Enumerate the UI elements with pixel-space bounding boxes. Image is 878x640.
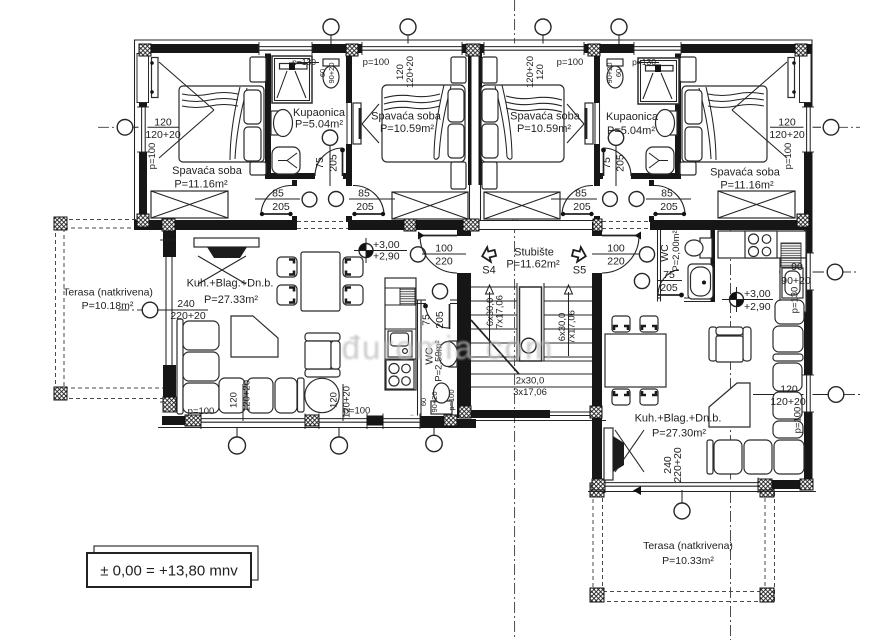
svg-text:2x30,0: 2x30,0 [516,376,545,387]
svg-text:S4: S4 [482,265,495,277]
svg-text:120: 120 [154,117,172,129]
svg-text:205: 205 [615,154,627,172]
svg-text:S5: S5 [573,265,586,277]
svg-text:120: 120 [329,392,340,408]
svg-text:220+20: 220+20 [672,447,684,482]
svg-text:đuromia com: đuromia com [342,329,555,366]
svg-text:+2,90: +2,90 [744,301,771,313]
svg-text:90+20: 90+20 [430,391,439,412]
svg-text:120+20: 120+20 [769,129,804,141]
svg-text:Spavaća soba: Spavaća soba [710,167,781,179]
svg-text:90+20: 90+20 [327,62,336,83]
svg-text:120+20: 120+20 [525,56,536,88]
svg-text:75: 75 [421,314,433,326]
svg-text:Spavaća soba: Spavaća soba [172,165,243,177]
svg-text:Spavaća soba: Spavaća soba [510,111,581,123]
svg-text:p=100: p=100 [363,57,390,68]
svg-text:Kuh.+Blag.+Dn.b.: Kuh.+Blag.+Dn.b. [187,278,274,290]
svg-text:p=100: p=100 [147,143,158,170]
svg-text:P=2,00m²: P=2,00m² [671,230,682,271]
svg-text:P=10.59m²: P=10.59m² [380,123,434,135]
svg-text:+2,90: +2,90 [373,251,400,263]
svg-text:p=100: p=100 [344,406,371,417]
svg-text:120+20: 120+20 [770,396,805,408]
svg-text:Terasa (natkrivena): Terasa (natkrivena) [63,287,153,299]
svg-text:85: 85 [272,188,284,200]
svg-text:120: 120 [780,384,798,396]
svg-text:7x17,06: 7x17,06 [495,295,506,329]
svg-text:205: 205 [660,282,678,294]
svg-text:p=100: p=100 [188,406,215,417]
svg-text:P=10.59m²: P=10.59m² [517,123,571,135]
svg-text:Kuh.+Blag.+Dn.b.: Kuh.+Blag.+Dn.b. [635,413,722,425]
svg-text:85: 85 [661,188,673,200]
svg-text:Terasa (natkrivena): Terasa (natkrivena) [643,540,733,552]
svg-text:85: 85 [575,188,587,200]
svg-text:120+20: 120+20 [145,129,180,141]
svg-text:100: 100 [607,243,625,255]
svg-text:75: 75 [601,157,613,169]
svg-text:205: 205 [434,311,446,329]
svg-text:60: 60 [419,398,428,406]
svg-text:p=100: p=100 [793,407,804,434]
svg-text:p=100: p=100 [447,389,456,410]
svg-text:120+20: 120+20 [405,56,416,88]
svg-text:+3,00: +3,00 [744,288,771,300]
svg-text:85: 85 [358,188,370,200]
svg-text:P=11.16m²: P=11.16m² [174,179,228,191]
svg-text:7x17,06: 7x17,06 [567,310,578,344]
svg-text:120: 120 [229,392,240,408]
svg-text:3x17,06: 3x17,06 [513,387,547,398]
svg-text:P=11.16m²: P=11.16m² [720,180,774,192]
svg-text:P=5.04m²: P=5.04m² [607,125,655,137]
svg-text:205: 205 [573,201,591,213]
svg-text:P=11.62m²: P=11.62m² [506,259,560,271]
svg-text:240: 240 [177,298,195,310]
svg-text:100: 100 [435,243,453,255]
svg-text:205: 205 [328,154,340,172]
svg-text:75: 75 [663,269,675,281]
svg-text:220: 220 [435,256,453,268]
svg-text:Kupaonica: Kupaonica [293,107,346,119]
svg-text:120: 120 [535,64,546,80]
svg-text:P=10.18m²: P=10.18m² [82,300,134,312]
svg-text:120: 120 [778,117,796,129]
svg-text:120+20: 120+20 [242,380,253,412]
svg-text:P=5.04m²: P=5.04m² [295,119,343,131]
svg-text:90+20: 90+20 [605,62,614,83]
svg-text:60: 60 [318,69,327,77]
svg-text:205: 205 [356,201,374,213]
svg-text:Stubište: Stubište [514,247,554,259]
svg-text:Kupaonica: Kupaonica [606,111,659,123]
svg-text:90: 90 [791,261,803,273]
svg-text:p=130: p=130 [790,287,801,314]
svg-text:p=100: p=100 [557,57,584,68]
svg-text:Spavaća soba: Spavaća soba [371,111,442,123]
svg-text:90+20: 90+20 [781,275,811,287]
svg-text:P=27.30m²: P=27.30m² [652,428,706,440]
svg-text:p=100: p=100 [783,143,794,170]
svg-text:220: 220 [607,256,625,268]
svg-text:+3,00: +3,00 [373,239,400,251]
svg-text:P=10.33m²: P=10.33m² [662,555,714,567]
svg-text:75: 75 [314,157,326,169]
svg-text:220+20: 220+20 [170,310,205,322]
svg-text:WC: WC [659,244,671,262]
svg-text:205: 205 [272,201,290,213]
svg-text:60: 60 [614,69,623,77]
svg-text:P=27.33m²: P=27.33m² [204,294,258,306]
svg-text:205: 205 [660,201,678,213]
svg-text:± 0,00 = +13,80 mnv: ± 0,00 = +13,80 mnv [100,563,238,580]
